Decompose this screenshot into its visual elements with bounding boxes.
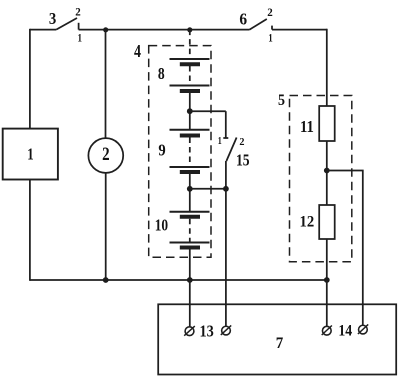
battery GB8 cell b short plate bbox=[180, 89, 200, 93]
wire from box 1 down to bottom bus bbox=[29, 180, 31, 281]
terminal 14b circle bbox=[359, 325, 368, 334]
wire R12 down to bus bbox=[326, 239, 328, 280]
svg-text:9: 9 bbox=[158, 141, 165, 160]
svg-text:7: 7 bbox=[276, 335, 284, 352]
svg-text:5: 5 bbox=[278, 92, 285, 109]
battery column dashed link bbox=[189, 66, 191, 85]
wire tap to right vertical bbox=[327, 171, 363, 326]
svg-text:3: 3 bbox=[49, 9, 56, 28]
svg-text:10: 10 bbox=[155, 216, 168, 235]
svg-text:12: 12 bbox=[300, 214, 315, 231]
svg-text:6: 6 bbox=[239, 9, 247, 28]
terminal 14a slash bbox=[322, 326, 332, 336]
wire from S6 contact to top-right corner bbox=[272, 29, 327, 31]
svg-text:2: 2 bbox=[267, 5, 273, 19]
wire R11 to junction bbox=[326, 141, 328, 205]
switch S6 arm bbox=[250, 19, 267, 30]
resistor R12 bbox=[319, 205, 335, 239]
dashed box 5 resistor section bbox=[290, 96, 352, 262]
svg-text:15: 15 bbox=[236, 151, 250, 170]
switch S15 arm bbox=[226, 138, 236, 162]
wire tap 2 horizontal to S15 pole bbox=[190, 188, 226, 190]
wire battery bottom to bus bbox=[189, 250, 191, 281]
node junction dot S15 pole bbox=[223, 186, 229, 192]
node junction dot bus meter bbox=[103, 277, 109, 283]
node junction dot battery top bbox=[187, 27, 192, 32]
battery GB8 cell b long plate bbox=[170, 85, 210, 87]
battery GB9 cell b short plate bbox=[180, 170, 200, 174]
battery GB8 cell a long plate bbox=[170, 58, 210, 60]
resistor R11 bbox=[319, 106, 335, 141]
svg-text:1: 1 bbox=[218, 136, 222, 147]
terminal 13a slash bbox=[184, 326, 195, 336]
node junction dot at meter branch bbox=[103, 27, 108, 32]
wire tap 1 horizontal to S15 contact bbox=[190, 110, 226, 112]
switch S3 fixed contact tick bbox=[78, 23, 80, 30]
switch S3 arm bbox=[56, 18, 77, 30]
box unit 1 bbox=[3, 129, 58, 180]
svg-text:2: 2 bbox=[239, 137, 244, 148]
battery column dashed link bbox=[189, 138, 191, 167]
wire battery bus to terminal 13a bbox=[189, 280, 191, 327]
battery GB8 cell a short plate bbox=[180, 62, 200, 66]
battery GB10 cell a short plate bbox=[180, 215, 200, 219]
wire meter branch vertical down to meter 2 bbox=[105, 30, 107, 139]
battery GB9 cell a short plate bbox=[180, 134, 200, 138]
svg-text:8: 8 bbox=[158, 64, 165, 83]
node junction dot bus battery bbox=[187, 277, 193, 283]
battery column dashed link bbox=[189, 219, 191, 242]
wire right vertical down to resistor 11 bbox=[326, 29, 328, 106]
meter P2 circle bbox=[88, 138, 123, 173]
terminal 13a circle bbox=[185, 327, 194, 336]
battery column dashed link top bbox=[189, 30, 191, 58]
svg-text:1: 1 bbox=[268, 33, 273, 45]
switch S6 fixed contact tick bbox=[271, 26, 273, 30]
bottom bus wire bbox=[30, 279, 327, 281]
wire left vertical from top corner to box 1 bbox=[29, 29, 31, 129]
wire resistor bus to terminal 14a bbox=[326, 280, 328, 327]
wire tap 1 vertical to S15 contact 1 bbox=[225, 111, 227, 138]
node junction dot between R11 R12 bbox=[324, 168, 330, 174]
svg-text:11: 11 bbox=[300, 117, 314, 136]
svg-text:1: 1 bbox=[27, 144, 33, 163]
battery GB10 cell b long plate bbox=[170, 242, 210, 244]
svg-text:2: 2 bbox=[75, 5, 81, 19]
dashed box 4 battery section bbox=[149, 46, 211, 258]
terminal 14a circle bbox=[322, 326, 331, 335]
wire from meter 2 down to bottom bus bbox=[105, 173, 107, 280]
node junction dot tap 1 bbox=[187, 108, 193, 114]
wire top bus from S3 contact to switch 6 pole bbox=[79, 29, 250, 31]
terminal 14b slash bbox=[358, 324, 368, 334]
wire battery link to tap 2 bbox=[189, 174, 191, 212]
wire top-left horizontal to switch 3 pole bbox=[30, 29, 56, 31]
battery GB10 cell b short plate bbox=[180, 246, 200, 250]
svg-text:1: 1 bbox=[78, 32, 83, 44]
box unit 7 bbox=[158, 304, 396, 374]
battery GB9 cell a long plate bbox=[170, 129, 210, 131]
battery GB10 cell a long plate bbox=[170, 211, 210, 213]
terminal 13b slash bbox=[221, 325, 231, 335]
switch S15 contact 1 tick bbox=[223, 137, 228, 139]
svg-text:13: 13 bbox=[199, 322, 213, 341]
terminal 13b circle bbox=[222, 326, 231, 335]
battery GB9 cell b long plate bbox=[170, 166, 210, 168]
switch S15 pole wire bbox=[225, 161, 227, 189]
svg-text:14: 14 bbox=[338, 322, 352, 339]
node junction dot tap 2 bbox=[187, 186, 193, 192]
wire S15 pole down to terminal 13b bbox=[225, 189, 227, 327]
svg-text:2: 2 bbox=[102, 145, 110, 165]
wire battery link to tap 1 bbox=[189, 93, 191, 130]
svg-text:4: 4 bbox=[134, 41, 141, 61]
node junction dot bus resistor bbox=[324, 277, 330, 283]
